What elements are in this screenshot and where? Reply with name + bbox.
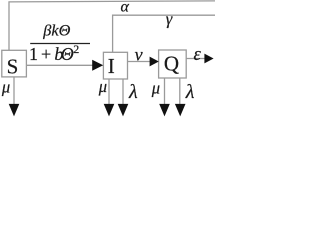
- wire: gamma feedback loop (top inner, from right edge down into top of I): [113, 15, 215, 52]
- svg-text:S: S: [7, 54, 19, 78]
- wire: I to Q arrow shaft: [128, 61, 151, 63]
- svg-text:λ: λ: [128, 81, 138, 103]
- svg-text:Q: Q: [164, 51, 179, 75]
- svg-text:+: +: [41, 44, 51, 64]
- box Q (quarantined compartment): [159, 50, 187, 78]
- box S (susceptible compartment): [2, 50, 27, 77]
- svg-text:μ: μ: [151, 79, 160, 98]
- svg-text:ν: ν: [135, 44, 143, 64]
- arrowhead down lambda under Q: [175, 104, 186, 117]
- svg-text:Θ: Θ: [61, 44, 74, 64]
- wire: lambda outflow leg under I: [122, 79, 124, 104]
- wire: mu outflow leg under I: [108, 79, 110, 104]
- arrowhead epsilon outflow: [204, 54, 213, 64]
- svg-text:βkΘ: βkΘ: [42, 20, 70, 39]
- svg-text:I: I: [108, 54, 115, 78]
- wire: mu outflow leg under S: [13, 77, 15, 105]
- svg-text:μ: μ: [98, 77, 107, 96]
- arrowhead into Q: [150, 57, 159, 67]
- svg-text:α: α: [121, 0, 130, 16]
- wire: mu outflow leg under Q: [164, 78, 166, 105]
- svg-text:ε: ε: [194, 45, 202, 65]
- wire: S to I arrow shaft: [26, 64, 94, 66]
- arrowhead into I: [92, 60, 103, 71]
- svg-text:μ: μ: [1, 78, 10, 97]
- arrowhead down mu under Q: [159, 104, 170, 117]
- svg-text:2: 2: [73, 42, 79, 56]
- arrowhead down mu under I: [104, 104, 115, 117]
- arrowhead down under S: [9, 104, 20, 117]
- svg-text:1: 1: [29, 44, 38, 64]
- wire: alpha feedback loop (top outer, from right edge down into top of S): [9, 1, 215, 50]
- fraction bar: [30, 43, 90, 45]
- box I (infected compartment): [103, 52, 127, 79]
- wire: Q to right (recovered, off-canvas) arrow shaft: [186, 58, 205, 60]
- arrowhead down lambda under I: [118, 104, 129, 117]
- svg-text:λ: λ: [185, 81, 195, 103]
- svg-text:γ: γ: [166, 10, 173, 29]
- wire: lambda outflow leg under Q: [179, 78, 181, 105]
